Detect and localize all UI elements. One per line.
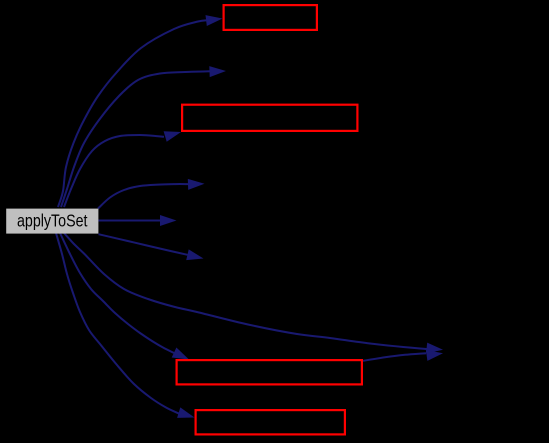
edge applyToSet to node4 <box>98 179 205 209</box>
edge applyToSet to node3 <box>64 131 181 207</box>
edge applyToSet to node2 <box>61 66 226 207</box>
svg-text:applyToSet: applyToSet <box>17 212 88 231</box>
node9 (truncated call, red box) <box>196 410 345 434</box>
edge applyToSet to node9 <box>56 233 195 418</box>
edge applyToSet to node6 <box>99 234 204 260</box>
edge node8 to node7 <box>363 350 443 361</box>
node3 (truncated call, red box) <box>182 105 357 131</box>
edge applyToSet to node5 <box>99 215 177 226</box>
edge applyToSet to node8 <box>60 233 189 360</box>
edge applyToSet to node1 <box>58 15 223 207</box>
node1 (truncated call, red box) <box>224 5 317 30</box>
node8 (truncated call, red box) <box>177 360 362 384</box>
edge applyToSet to node7 <box>64 233 443 354</box>
node applyToSet (current function, grey box) <box>6 209 98 234</box>
